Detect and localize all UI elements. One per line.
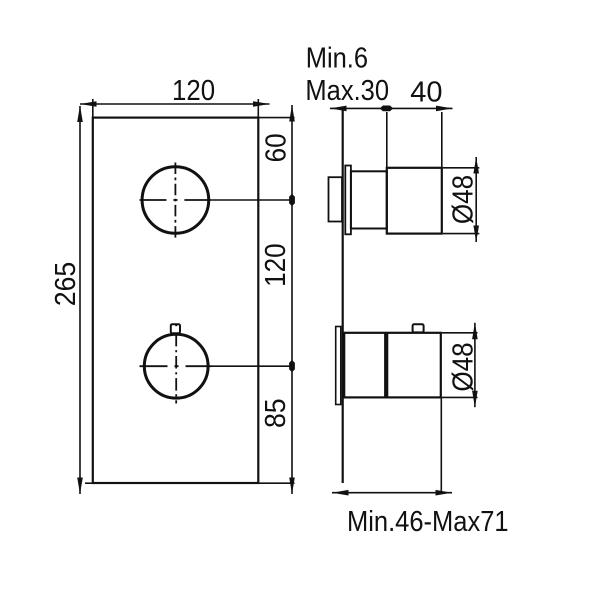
side view: knob 2 thick divider	[384, 333, 388, 398]
dim Min46-Max71: dimension line	[332, 492, 452, 494]
right dim chain: top extension line	[258, 117, 294, 119]
knob 1 centerline solid extension	[211, 199, 292, 201]
svg-text:60: 60	[259, 133, 292, 162]
side view: knob 2 body	[344, 333, 441, 398]
knob 2 tab button	[171, 324, 180, 333]
svg-text:Min.6: Min.6	[306, 41, 368, 74]
dim 120 top: extension line left	[92, 99, 94, 118]
dim junction arrows at body left edge	[380, 106, 394, 112]
dim diameter 48 bottom: bottom extension line	[442, 396, 478, 398]
dim Min6-Max30: left arrow	[330, 106, 347, 112]
right dim chain: top arrow	[289, 105, 295, 122]
knob 2 circle	[144, 334, 208, 398]
knob 2 vertical centerline	[175, 324, 177, 326]
knob 1 horizontal centerline	[140, 199, 212, 201]
dim Min6-Max30/40: dimension line	[330, 107, 453, 109]
dim diameter 48 bottom: top extension line	[442, 332, 478, 334]
right dim chain: junction arrows at knob 2 centerline	[289, 360, 295, 372]
svg-text:120: 120	[259, 243, 292, 287]
dim 120 top: left arrow	[80, 101, 97, 107]
side view: knob 1 body	[387, 168, 442, 234]
dim diameter 48 top: top arrow	[473, 157, 479, 174]
right dim chain: bottom arrow	[289, 478, 295, 495]
dim diameter 48 top: top extension line	[443, 167, 479, 169]
dim diameter 48 bottom: top arrow	[472, 323, 478, 340]
side view: knob 2 slider plate	[336, 327, 341, 405]
dim 120 top: right arrow	[253, 101, 270, 107]
dim Min46-Max71: right arrow	[436, 490, 453, 496]
dim Min6-Max30/40: left body extension line	[386, 112, 388, 168]
dim Min6-Max30/40: right body extension line	[441, 112, 443, 168]
dim 120 top: extension line right	[257, 99, 259, 118]
dim 265 left: dimension line	[79, 106, 81, 494]
svg-text:Max.30: Max.30	[305, 73, 389, 106]
knob 1 circle	[142, 167, 209, 234]
svg-text:265: 265	[49, 262, 81, 307]
right dim chain: dimension line	[291, 105, 293, 494]
side view: in-wall valve body	[329, 177, 343, 221]
dim diameter 48 bottom: dimension line	[474, 323, 476, 407]
svg-text:40: 40	[410, 77, 442, 109]
svg-text:85: 85	[259, 398, 291, 428]
svg-text:Ø48: Ø48	[446, 175, 479, 224]
dim 120 top: dimension line	[80, 103, 270, 105]
dim diameter 48 bottom: bottom arrow	[472, 391, 478, 408]
dim Min46-Max71: left arrow	[332, 490, 349, 496]
right dim chain: junction arrows at knob 1 centerline	[289, 194, 295, 206]
svg-text:Min.46-Max71: Min.46-Max71	[347, 504, 509, 537]
dim 40: right arrow	[436, 106, 453, 112]
right dim chain: bottom extension line	[258, 482, 294, 484]
dim 265: bottom extension line	[85, 482, 93, 484]
front plate outline	[93, 118, 258, 483]
side view: knob 2 tab button	[413, 324, 424, 332]
dim Min46-Max71: right extension line	[440, 397, 442, 493]
knob 1 vertical centerline	[174, 163, 176, 238]
dim 265: bottom arrow	[77, 478, 83, 495]
side view: wall line	[342, 111, 344, 484]
dim 265: top arrow	[77, 106, 83, 123]
dim diameter 48 top: bottom arrow	[473, 226, 479, 243]
dim diameter 48 top: bottom extension line	[443, 233, 479, 235]
side view: escutcheon flange	[345, 166, 351, 235]
knob 2 centerline solid extension	[212, 365, 293, 367]
knob 2 horizontal centerline	[140, 365, 212, 367]
svg-text:120: 120	[172, 74, 215, 107]
side view: knob 1 neck	[351, 171, 387, 228]
svg-text:Ø48: Ø48	[446, 342, 479, 391]
dim diameter 48 top: dimension line	[475, 157, 477, 242]
